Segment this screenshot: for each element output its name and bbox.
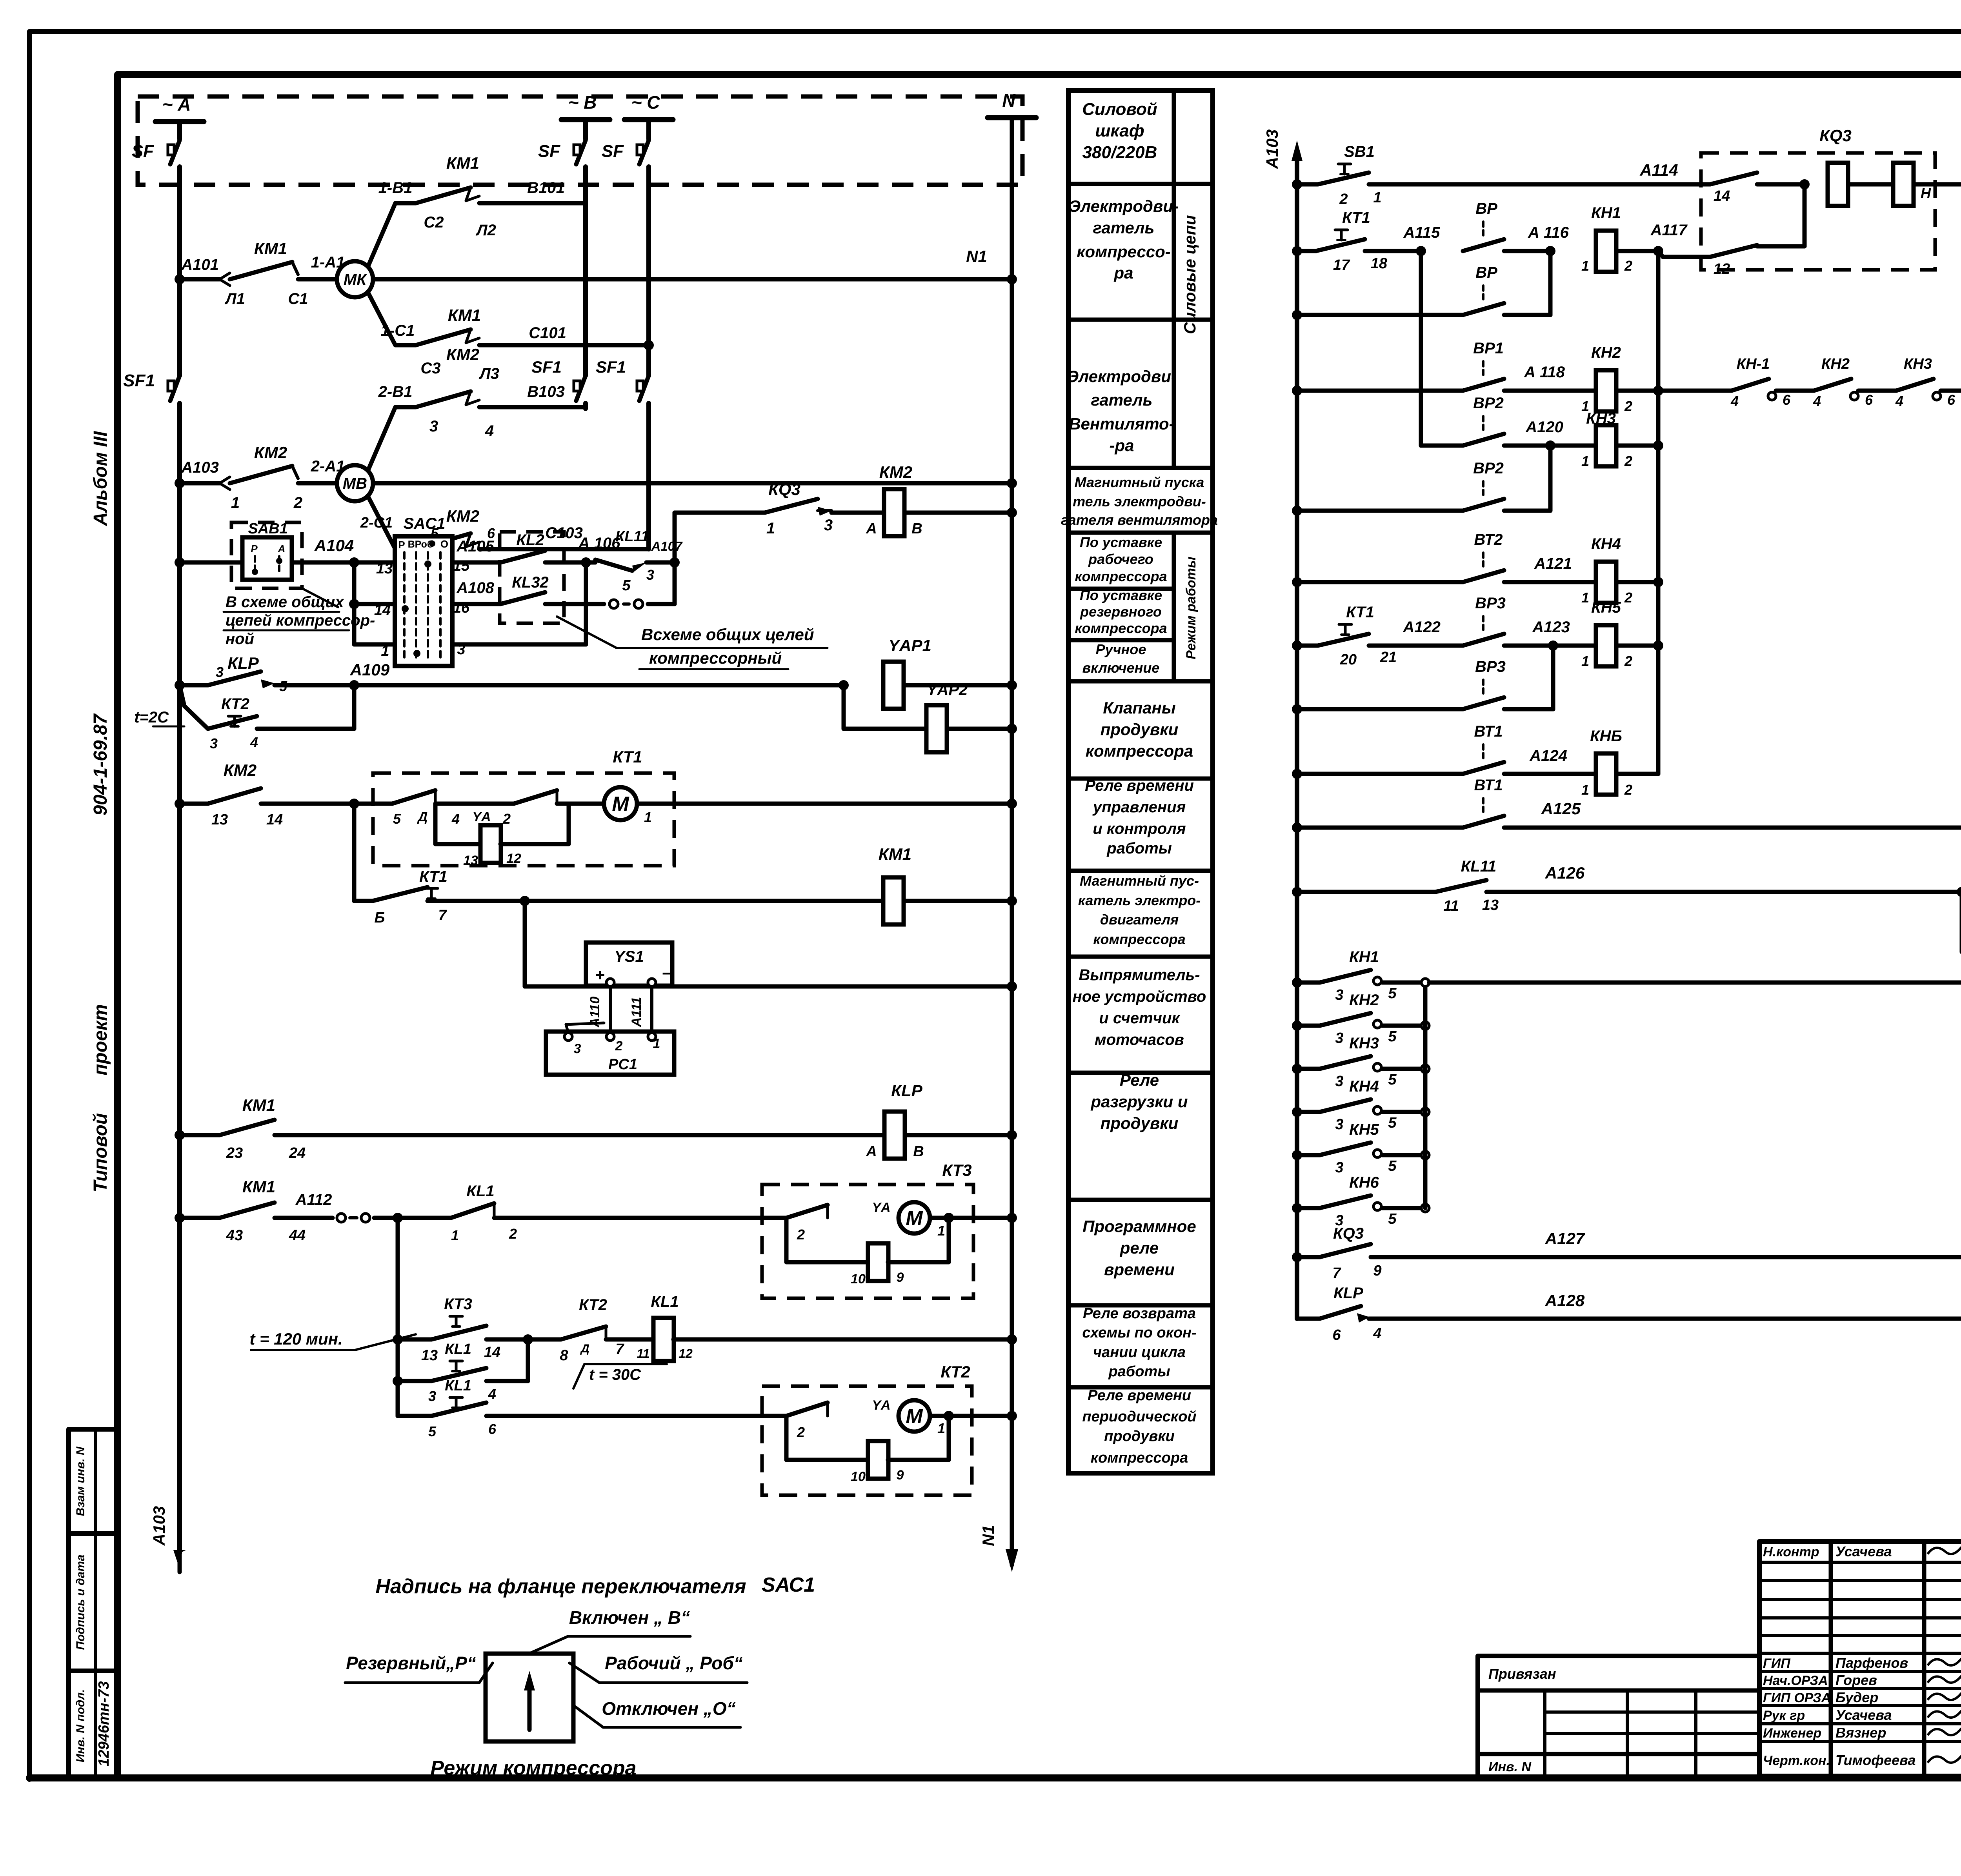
svg-text:Реле времени: Реле времени xyxy=(1085,777,1194,794)
wire A108 and contact KL32 xyxy=(452,602,500,606)
svg-text:1-В1: 1-В1 xyxy=(378,179,413,197)
left bottom stamp table xyxy=(69,1429,118,1778)
svg-text:23: 23 xyxy=(226,1145,243,1161)
svg-text:КН2: КН2 xyxy=(1591,344,1621,361)
row KM1 43-44 A112 : KL1 contact and program relay KT3 xyxy=(175,1213,185,1223)
svg-text:5: 5 xyxy=(622,577,631,594)
svg-text:8: 8 xyxy=(560,1347,568,1364)
svg-text:4: 4 xyxy=(451,811,460,827)
wire 14-16 row into SAC1 xyxy=(352,562,357,644)
svg-text:гатель: гатель xyxy=(1091,391,1153,409)
svg-text:А122: А122 xyxy=(1403,619,1441,636)
svg-text:Черт.кон.: Черт.кон. xyxy=(1763,1753,1830,1768)
svg-text:13: 13 xyxy=(463,853,478,868)
wires A110 A111 xyxy=(609,986,612,1032)
svg-text:2: 2 xyxy=(1624,653,1632,669)
svg-text:Д: Д xyxy=(417,810,428,824)
row BP2 lower xyxy=(1292,506,1302,516)
gas relay KQ3 dashed box xyxy=(1701,153,1935,270)
svg-text:Нач.ОРЗА: Нач.ОРЗА xyxy=(1763,1673,1828,1688)
row KL11 11-13 A126 lamps HLA1 xyxy=(1292,887,1302,897)
periodic purge time relay KT2 box xyxy=(762,1386,972,1495)
svg-text:1: 1 xyxy=(937,1420,945,1436)
branch with time contact KT2 (t=2C) xyxy=(180,685,208,729)
svg-text:Усачева: Усачева xyxy=(1835,1543,1892,1559)
svg-text:Реле возврата: Реле возврата xyxy=(1083,1305,1196,1322)
svg-text:и контроля: и контроля xyxy=(1093,820,1186,837)
svg-text:N: N xyxy=(1002,90,1015,111)
svg-text:YА: YА xyxy=(872,1200,890,1215)
svg-text:О: О xyxy=(440,538,448,550)
svg-text:17: 17 xyxy=(1333,257,1350,273)
svg-text:3: 3 xyxy=(1335,1030,1343,1046)
svg-text:SАС1: SАС1 xyxy=(762,1574,815,1596)
svg-text:43: 43 xyxy=(226,1227,243,1244)
row BT1 A124 KH6 xyxy=(1292,769,1302,779)
KQ3 row 12 xyxy=(1663,255,1710,259)
KQ3 coils xyxy=(1828,163,1848,206)
svg-text:13: 13 xyxy=(211,812,228,828)
svg-text:~ А: ~ А xyxy=(162,94,191,115)
svg-text:9: 9 xyxy=(897,1468,904,1483)
svg-text:YА: YА xyxy=(872,1398,890,1413)
svg-text:работы: работы xyxy=(1106,840,1172,857)
svg-text:А127: А127 xyxy=(1545,1229,1585,1248)
svg-text:3: 3 xyxy=(216,664,224,680)
svg-text:КQ3: КQ3 xyxy=(1819,126,1852,145)
svg-text:Усачева: Усачева xyxy=(1835,1707,1892,1723)
svg-text:тель электродви-: тель электродви- xyxy=(1073,493,1206,509)
svg-text:1: 1 xyxy=(1581,653,1589,669)
svg-text:5: 5 xyxy=(428,1423,437,1439)
annotation common circuits xyxy=(557,617,617,648)
svg-text:3: 3 xyxy=(428,1388,436,1404)
svg-text:ное устройство: ное устройство xyxy=(1073,988,1206,1005)
svg-text:10: 10 xyxy=(851,1272,866,1286)
svg-text:3: 3 xyxy=(1335,1159,1343,1176)
program time relay KT3 box xyxy=(762,1185,973,1298)
svg-text:Н.контр: Н.контр xyxy=(1763,1545,1819,1559)
svg-text:МВ: МВ xyxy=(343,475,367,492)
svg-text:ГИП ОРЗА: ГИП ОРЗА xyxy=(1763,1690,1831,1705)
svg-text:13: 13 xyxy=(376,560,393,577)
svg-text:компрессора: компрессора xyxy=(1086,742,1193,760)
svg-text:SF1: SF1 xyxy=(123,371,155,390)
svg-text:КТ1: КТ1 xyxy=(1346,604,1374,621)
svg-text:компрессора: компрессора xyxy=(1075,568,1167,584)
svg-text:ВР: ВР xyxy=(1475,200,1497,217)
svg-text:Вентилято-: Вентилято- xyxy=(1069,415,1174,433)
svg-text:Л3: Л3 xyxy=(478,365,499,382)
svg-text:Электродви-: Электродви- xyxy=(1069,197,1179,215)
svg-text:t = 120 мин.: t = 120 мин. xyxy=(249,1330,342,1348)
motor MB xyxy=(337,465,373,501)
row BP1 A118 KH2 and KH chain with resistor R1 xyxy=(1292,386,1302,396)
svg-text:1-С1: 1-С1 xyxy=(381,322,415,339)
row KQ3 contact and coil KM2 xyxy=(675,511,765,515)
svg-text:КТ1: КТ1 xyxy=(613,748,642,766)
svg-text:С3: С3 xyxy=(420,360,440,377)
svg-text:−: − xyxy=(662,964,672,983)
svg-text:КН4: КН4 xyxy=(1591,535,1621,553)
svg-text:Л2: Л2 xyxy=(475,222,496,239)
svg-text:ВР1: ВР1 xyxy=(1473,340,1504,357)
svg-text:А 118: А 118 xyxy=(1524,364,1565,381)
svg-text:А 116: А 116 xyxy=(1528,224,1569,241)
svg-text:380/220В: 380/220В xyxy=(1082,143,1157,162)
svg-text:КQ3: КQ3 xyxy=(768,480,800,499)
wire A105 and relay contact KL2 xyxy=(452,560,500,565)
svg-text:КQ3: КQ3 xyxy=(1333,1225,1364,1242)
contact КН4 3-5 xyxy=(1292,1107,1302,1117)
svg-text:КМ2: КМ2 xyxy=(879,463,912,481)
riser to KQ3 row xyxy=(673,513,677,604)
svg-text:А 106: А 106 xyxy=(578,535,620,552)
svg-text:Л1: Л1 xyxy=(224,290,245,308)
svg-text:компрессора: компрессора xyxy=(1075,620,1167,636)
svg-text:7: 7 xyxy=(615,1341,624,1357)
svg-text:КМ2: КМ2 xyxy=(446,507,479,525)
KT1 motor xyxy=(604,787,637,820)
phase A bus vertical xyxy=(177,167,182,376)
svg-text:Н: Н xyxy=(1921,185,1931,201)
svg-text:гатель: гатель xyxy=(1093,218,1155,237)
svg-text:моточасов: моточасов xyxy=(1095,1031,1184,1048)
svg-text:схемы по окон-: схемы по окон- xyxy=(1082,1325,1196,1341)
bus N xyxy=(988,115,1036,120)
svg-text:КL11: КL11 xyxy=(1461,858,1497,875)
row BP2 A120 KH3 xyxy=(1419,251,1423,446)
svg-text:5: 5 xyxy=(1388,1072,1397,1088)
svg-text:КН-1: КН-1 xyxy=(1737,356,1770,372)
svg-text:2: 2 xyxy=(1339,191,1348,207)
row BT1 A125 coil KL11 xyxy=(1292,822,1302,833)
svg-text:времени: времени xyxy=(1104,1260,1175,1279)
svg-text:ГИП: ГИП xyxy=(1763,1656,1791,1671)
svg-text:С2: С2 xyxy=(424,214,444,231)
row A101 : motor MK circuit xyxy=(175,274,185,284)
contact KT3 13-14 (t=120 min) xyxy=(398,1337,431,1342)
svg-text:2: 2 xyxy=(1624,258,1632,274)
row BP lower xyxy=(1292,310,1302,320)
svg-text:ВР2: ВР2 xyxy=(1473,460,1504,477)
svg-text:N1: N1 xyxy=(979,1525,997,1546)
svg-text:С101: С101 xyxy=(529,324,566,342)
svg-text:КН2: КН2 xyxy=(1349,992,1379,1009)
svg-text:А121: А121 xyxy=(1534,555,1572,572)
svg-text:КН2: КН2 xyxy=(1821,356,1850,372)
bus ~B xyxy=(561,117,610,122)
svg-text:9: 9 xyxy=(897,1270,904,1285)
svg-text:КLP: КLP xyxy=(1333,1285,1363,1302)
svg-text:КН5: КН5 xyxy=(1349,1121,1379,1138)
lamp group HLA1 xyxy=(1957,887,1961,897)
mode selector box xyxy=(486,1654,573,1741)
svg-text:В схеме общих: В схеме общих xyxy=(226,593,344,611)
svg-text:А126: А126 xyxy=(1545,864,1585,882)
svg-text:904-1-69.87: 904-1-69.87 xyxy=(90,713,111,815)
svg-text:Резервный„Р“: Резервный„Р“ xyxy=(346,1653,476,1673)
svg-text:20: 20 xyxy=(1340,651,1357,668)
svg-text:КН3: КН3 xyxy=(1904,356,1932,372)
svg-text:Инженер: Инженер xyxy=(1763,1726,1821,1741)
svg-text:SF1: SF1 xyxy=(531,358,562,376)
vertical A117 feed xyxy=(1656,251,1661,774)
svg-text:гателя вентилятора: гателя вентилятора xyxy=(1061,512,1218,528)
svg-text:2: 2 xyxy=(797,1226,805,1243)
rectifier YS1 and hour counter PC1 xyxy=(523,901,527,986)
svg-text:М: М xyxy=(612,793,629,815)
svg-text:1: 1 xyxy=(1373,189,1381,206)
row KM2 13-14 : time relay KT1 xyxy=(175,799,185,809)
svg-text:С1: С1 xyxy=(288,290,308,308)
rows KT3 / KL1 / KT2 timing chain xyxy=(396,1218,400,1416)
svg-text:ВР: ВР xyxy=(1475,264,1497,281)
wire N1 from MK to N bus xyxy=(373,277,1012,282)
svg-text:5: 5 xyxy=(1388,1028,1397,1045)
row A104 : SAB1 / SAC1 / KL2 / KL11 xyxy=(175,557,185,568)
svg-text:2: 2 xyxy=(1624,782,1632,798)
svg-text:КМ2: КМ2 xyxy=(224,761,256,779)
KT1 internal coil loop xyxy=(435,804,481,844)
row KT1 20-21 A122 BP3 A123 KH5 xyxy=(1292,640,1302,651)
svg-text:Ручное: Ручное xyxy=(1096,641,1146,657)
svg-text:продувки: продувки xyxy=(1101,720,1179,739)
svg-text:ВТ1: ВТ1 xyxy=(1474,723,1503,740)
svg-text:Всхеме общих целей: Всхеме общих целей xyxy=(641,625,814,644)
svg-text:А120: А120 xyxy=(1525,419,1563,436)
svg-text:6: 6 xyxy=(1332,1327,1341,1343)
svg-text:5: 5 xyxy=(1388,1158,1397,1174)
svg-text:2: 2 xyxy=(293,494,302,511)
svg-text:3: 3 xyxy=(574,1041,581,1056)
svg-text:2-С1: 2-С1 xyxy=(360,515,393,531)
svg-text:YS1: YS1 xyxy=(614,948,644,965)
svg-text:А117: А117 xyxy=(1650,222,1688,239)
svg-text:9: 9 xyxy=(1373,1263,1381,1279)
svg-text:2-В1: 2-В1 xyxy=(378,383,413,400)
svg-text:КНБ: КНБ xyxy=(1590,728,1622,745)
svg-text:11: 11 xyxy=(637,1346,649,1361)
svg-text:катель электро-: катель электро- xyxy=(1078,892,1201,908)
svg-text:12: 12 xyxy=(1714,261,1730,277)
svg-text:А: А xyxy=(278,543,286,555)
svg-text:Силовой: Силовой xyxy=(1082,100,1157,119)
svg-text:44: 44 xyxy=(289,1227,306,1244)
node A103 arrow at bottom xyxy=(173,1550,186,1569)
svg-text:11: 11 xyxy=(1443,898,1459,914)
row KM1 23-24 : relay coil KLP xyxy=(175,1130,185,1140)
svg-text:4: 4 xyxy=(1373,1325,1381,1342)
svg-text:КТ3: КТ3 xyxy=(942,1161,971,1179)
time relay KT1 box xyxy=(373,773,674,866)
power cabinet dashed enclosure xyxy=(138,96,1022,185)
svg-text:компрессора: компрессора xyxy=(1093,931,1185,947)
svg-text:Парфенов: Парфенов xyxy=(1835,1655,1908,1671)
svg-text:КLP: КLP xyxy=(227,654,259,672)
svg-text:N1: N1 xyxy=(966,247,987,266)
node A106 xyxy=(581,557,591,568)
svg-text:Д: Д xyxy=(580,1342,589,1355)
contact КН3 3-5 xyxy=(1292,1064,1302,1074)
svg-text:А103: А103 xyxy=(150,1506,168,1546)
svg-text:компрессорный: компрессорный xyxy=(649,649,782,667)
svg-text:КМ1: КМ1 xyxy=(448,306,481,324)
svg-text:Реле времени: Реле времени xyxy=(1088,1387,1191,1404)
svg-text:работы: работы xyxy=(1108,1363,1170,1380)
switch SAC1 xyxy=(395,536,452,666)
svg-text:12: 12 xyxy=(679,1346,693,1361)
svg-text:периодической: периодической xyxy=(1082,1408,1196,1425)
svg-text:1: 1 xyxy=(231,494,240,511)
contact КН1 3-5 xyxy=(1292,977,1302,988)
bus ~C xyxy=(624,117,673,122)
bus ~A xyxy=(155,119,204,124)
valve coil YAP1 xyxy=(839,680,849,690)
svg-text:Режим работы: Режим работы xyxy=(1184,557,1199,659)
svg-text:5: 5 xyxy=(1388,985,1397,1002)
svg-text:КL1: КL1 xyxy=(651,1293,679,1310)
middle legend column xyxy=(1068,91,1213,1473)
svg-text:КL1: КL1 xyxy=(466,1183,494,1200)
svg-text:КМ1: КМ1 xyxy=(254,239,287,258)
svg-text:Р: Р xyxy=(251,543,258,555)
svg-text:3: 3 xyxy=(824,517,833,534)
svg-text:В101: В101 xyxy=(527,179,565,197)
svg-text:12: 12 xyxy=(506,851,521,866)
svg-text:Привязан: Привязан xyxy=(1488,1666,1556,1682)
svg-text:Магнитный пуска: Магнитный пуска xyxy=(1075,474,1204,490)
svg-text:-ра: -ра xyxy=(1110,436,1134,455)
svg-text:1: 1 xyxy=(644,809,652,825)
svg-text:YАР1: YАР1 xyxy=(888,636,931,655)
svg-text:3: 3 xyxy=(646,567,654,583)
svg-text:рабочего: рабочего xyxy=(1088,551,1153,567)
svg-text:ра: ра xyxy=(1113,264,1133,282)
svg-text:3: 3 xyxy=(1335,987,1343,1003)
svg-text:А114: А114 xyxy=(1639,161,1678,179)
svg-text:А108: А108 xyxy=(456,579,494,597)
svg-text:13: 13 xyxy=(1482,897,1499,913)
switch SAB1 xyxy=(231,522,302,588)
svg-text:14: 14 xyxy=(484,1344,500,1361)
svg-text:4: 4 xyxy=(250,734,258,750)
svg-text:КТ1: КТ1 xyxy=(1342,209,1370,226)
N1 bus vertical xyxy=(1010,118,1014,1412)
svg-text:1: 1 xyxy=(1581,453,1589,469)
svg-text:КLP: КLP xyxy=(891,1081,922,1100)
svg-text:15: 15 xyxy=(453,558,470,574)
svg-text:По уставке: По уставке xyxy=(1080,587,1162,603)
svg-text:Включен „ В“: Включен „ В“ xyxy=(569,1607,690,1628)
row SB1 A114 KQ3 xyxy=(1292,179,1302,189)
svg-text:КМ2: КМ2 xyxy=(446,345,479,364)
svg-text:4: 4 xyxy=(1895,393,1903,409)
svg-text:SF1: SF1 xyxy=(596,358,626,376)
svg-text:Рук гр: Рук гр xyxy=(1763,1708,1805,1723)
svg-text:7: 7 xyxy=(1332,1265,1341,1281)
svg-text:Отключен „О“: Отключен „О“ xyxy=(602,1698,735,1719)
svg-text:2: 2 xyxy=(1624,590,1632,606)
svg-text:А125: А125 xyxy=(1541,799,1581,818)
svg-text:По уставке: По уставке xyxy=(1080,534,1162,550)
svg-text:А112: А112 xyxy=(295,1191,332,1208)
breaker SF1 phase B xyxy=(576,376,586,401)
svg-text:4: 4 xyxy=(1730,393,1739,409)
svg-text:1: 1 xyxy=(1581,258,1589,274)
svg-text:t = 30С: t = 30С xyxy=(589,1366,641,1383)
motor MK xyxy=(337,261,373,297)
wire from MB to N bus xyxy=(373,481,1012,486)
row BP3 lower xyxy=(1292,704,1302,714)
breaker SF phase A xyxy=(177,122,182,139)
svg-text:Альбом III: Альбом III xyxy=(90,431,111,526)
svg-text:21: 21 xyxy=(1380,649,1397,666)
svg-text:5: 5 xyxy=(1388,1211,1397,1227)
svg-text:М: М xyxy=(906,1405,923,1428)
svg-text:В: В xyxy=(913,1143,924,1160)
svg-text:А107: А107 xyxy=(651,539,683,553)
row KQ3 7-9 A127 lamp HLW2 xyxy=(1292,1252,1302,1262)
phase B vertical xyxy=(583,167,588,376)
row A103 : motor MB circuit xyxy=(175,478,185,488)
svg-text:1: 1 xyxy=(653,1036,660,1051)
svg-text:YАР2: YАР2 xyxy=(927,681,968,699)
svg-text:1: 1 xyxy=(451,1227,459,1243)
svg-text:7: 7 xyxy=(438,907,447,924)
svg-text:SF: SF xyxy=(538,142,560,161)
breaker SF phase C xyxy=(646,120,651,139)
svg-text:t=2C: t=2C xyxy=(134,709,169,726)
svg-text:2: 2 xyxy=(797,1424,805,1440)
svg-text:А128: А128 xyxy=(1545,1291,1585,1310)
svg-text:4: 4 xyxy=(485,422,494,440)
svg-text:~ С: ~ С xyxy=(631,92,660,113)
svg-text:Силовые цепи: Силовые цепи xyxy=(1181,215,1199,334)
svg-text:SF: SF xyxy=(602,142,624,161)
svg-text:3: 3 xyxy=(429,418,438,435)
row KLP 6-4 A128 lamp HLW3 xyxy=(1297,1317,1320,1321)
svg-text:Тимофеева: Тимофеева xyxy=(1835,1752,1916,1768)
svg-text:КН3: КН3 xyxy=(1349,1035,1379,1052)
svg-text:управления: управления xyxy=(1092,799,1186,816)
breaker SF1 phase A xyxy=(170,376,180,401)
row BT2 A121 KH4 xyxy=(1292,577,1302,587)
svg-text:1: 1 xyxy=(766,520,775,537)
svg-text:Выпрямитель-: Выпрямитель- xyxy=(1079,966,1200,984)
svg-text:КТ2: КТ2 xyxy=(579,1296,607,1314)
svg-text:Надпись на фланце переключа: Надпись на фланце переключателя xyxy=(375,1575,746,1598)
svg-text:КL1: КL1 xyxy=(445,1341,471,1357)
annotation for SAB1 xyxy=(302,588,338,607)
svg-text:А: А xyxy=(866,520,877,537)
breaker SF1 phase C xyxy=(639,376,649,401)
svg-text:КН6: КН6 xyxy=(1349,1174,1379,1191)
svg-text:1: 1 xyxy=(1581,782,1589,798)
svg-text:ной: ной xyxy=(226,630,254,648)
svg-text:продувки: продувки xyxy=(1104,1428,1175,1445)
branch 1-C1 with contact KM1 to wire C101 xyxy=(368,292,416,345)
svg-text:ВР3: ВР3 xyxy=(1475,658,1506,675)
svg-text:Режим компрессора: Режим компрессора xyxy=(430,1757,636,1780)
svg-text:КН1: КН1 xyxy=(1591,204,1621,222)
svg-text:А115: А115 xyxy=(1403,224,1440,241)
svg-text:2: 2 xyxy=(1624,398,1632,414)
title block xyxy=(1757,1541,1762,1776)
svg-text:Типовой проект: Типовой проект xyxy=(90,1004,111,1192)
svg-text:А: А xyxy=(866,1143,877,1160)
svg-text:А105: А105 xyxy=(456,538,494,555)
